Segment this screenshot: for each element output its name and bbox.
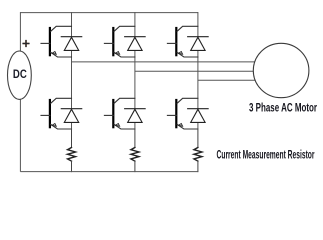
svg-text:3 Phase AC Motor: 3 Phase AC Motor [249,102,317,115]
svg-text:Current Measurement Resistor: Current Measurement Resistor [217,149,315,163]
svg-text:DC: DC [13,68,27,81]
